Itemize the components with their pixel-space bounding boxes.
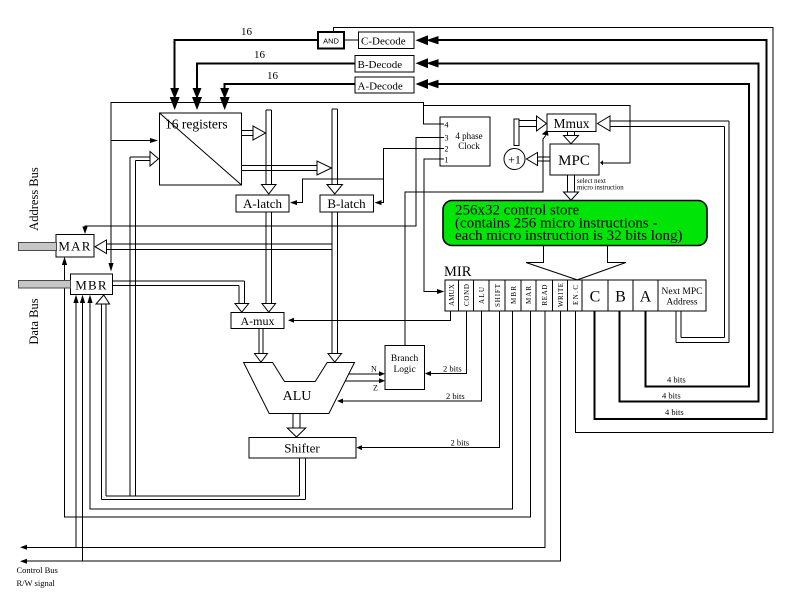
bus: MPC output to control store bbox=[567, 175, 569, 192]
wire: phase-3 clock to MAR load bbox=[85, 138, 440, 231]
svg-text:MAR: MAR bbox=[525, 286, 533, 304]
wire: B loop (4 bits) from MIR B field to B-Decode bbox=[430, 63, 759, 401]
svg-text:Clock: Clock bbox=[458, 141, 480, 151]
svg-text:each micro instruction is 32 b: each micro instruction is 32 bits long) bbox=[455, 228, 682, 244]
arrow: into MPC right edge bbox=[600, 160, 603, 165]
wire: WRITE branch up into MBR bbox=[82, 299, 84, 561]
bus: MPC to +1 adder bbox=[538, 156, 550, 158]
svg-text:Address Bus: Address Bus bbox=[27, 167, 41, 231]
arrow: down into 16 registers (A field) bbox=[220, 88, 230, 110]
svg-text:Next MPC: Next MPC bbox=[662, 287, 703, 297]
arrow: up into MBR bottom bbox=[87, 295, 92, 303]
bus: riser into MBR bottom bbox=[101, 304, 103, 500]
component: branch logic box bbox=[385, 345, 424, 389]
arrow: down into 16 registers (B field) bbox=[192, 88, 202, 110]
svg-text:Address: Address bbox=[666, 298, 697, 308]
svg-text:AND: AND bbox=[323, 37, 339, 46]
svg-text:A-Decode: A-Decode bbox=[358, 81, 403, 93]
component: B-latch box bbox=[320, 195, 374, 212]
bus: address bus (gray) bbox=[19, 243, 57, 251]
svg-text:2: 2 bbox=[445, 145, 449, 154]
component: A-Decode box bbox=[355, 77, 414, 93]
wire: phase-2 branch to A-latch bbox=[293, 179, 383, 203]
component: shifter box bbox=[249, 437, 356, 458]
arrow: N into branch logic bbox=[379, 371, 385, 376]
arrow: up into MBR bottom (write) bbox=[80, 295, 85, 303]
wire: READ branch up into MBR bbox=[75, 299, 77, 547]
wire: ALU N flag to branch logic bbox=[349, 373, 381, 375]
wire: phase-4 clock distribution (top edge, left edge to MBR) bbox=[111, 103, 440, 264]
arrow: write control bus left bbox=[20, 559, 27, 564]
wire: MIR READ control to control bus bbox=[23, 311, 545, 547]
svg-text:B-latch: B-latch bbox=[327, 196, 366, 211]
arrow: diagonal into Mmux corner bbox=[542, 130, 549, 136]
svg-text:C: C bbox=[590, 289, 601, 306]
svg-text:COND: COND bbox=[463, 284, 471, 306]
component: A-mux box bbox=[231, 313, 284, 329]
arrow: into ALU right edge bbox=[337, 399, 343, 404]
bus: Mmux output to MPC bbox=[567, 132, 569, 136]
arrow: into A-mux right edge bbox=[288, 318, 294, 323]
wire: phase-2 clock to B-latch bbox=[378, 149, 441, 203]
svg-text:Logic: Logic bbox=[394, 365, 416, 375]
svg-text:Branch: Branch bbox=[391, 354, 419, 364]
bus: pulse to Mmux bbox=[519, 120, 537, 122]
arrow: into C-Decode bbox=[416, 35, 439, 45]
wire: ALU Z flag to branch logic bbox=[346, 380, 381, 382]
svg-text:Shifter: Shifter bbox=[284, 441, 320, 456]
bus: tap from B bus into MAR bbox=[107, 243, 333, 245]
wire: phase-4 branch into 16 registers bbox=[111, 140, 150, 142]
bus: A-mux output to ALU bbox=[258, 329, 260, 354]
wire: MIR MBR field control bbox=[90, 299, 513, 509]
component: A-latch box bbox=[236, 195, 289, 212]
svg-text:C-Decode: C-Decode bbox=[361, 36, 406, 48]
wire: phase-4 branch to MPC clock bbox=[424, 106, 631, 163]
component: Mmux box bbox=[547, 114, 596, 132]
component: 256x32 control store (green) bbox=[443, 201, 707, 246]
svg-text:B-Decode: B-Decode bbox=[358, 59, 403, 71]
svg-text:Control Bus: Control Bus bbox=[17, 565, 58, 575]
bus: B-latch output to ALU bbox=[331, 212, 333, 354]
svg-text:micro instruction: micro instruction bbox=[577, 185, 624, 192]
arrow: into A-latch right edge bbox=[290, 200, 297, 205]
svg-text:READ: READ bbox=[541, 285, 549, 306]
component: 16 registers box bbox=[160, 113, 242, 185]
arrow: into MIR left edge bbox=[437, 289, 444, 294]
arrow: into B-Decode bbox=[416, 58, 439, 68]
wire: AND gate output to C-Decode line bbox=[344, 39, 359, 41]
component: AND gate box bbox=[318, 32, 344, 49]
svg-text:A: A bbox=[640, 289, 652, 306]
bus: next MPC address to Mmux bbox=[675, 311, 677, 343]
bus: MBR output to A-mux bbox=[113, 280, 245, 282]
svg-text:MBR: MBR bbox=[510, 286, 518, 304]
component: B-Decode box bbox=[355, 56, 414, 73]
arrow: into A-Decode bbox=[416, 79, 439, 89]
arrow: up into MAR bottom bbox=[62, 257, 67, 265]
arrow: hook down into MAR top bbox=[82, 227, 87, 235]
svg-text:4 phase: 4 phase bbox=[455, 131, 482, 141]
wire: MIR SHIFT field control (2 bits) bbox=[360, 311, 500, 448]
arrow: into branch logic right edge bbox=[425, 371, 431, 376]
bus: data bus (gray) bbox=[19, 280, 71, 288]
wire: ENC loop from MIR EN.C field to AND gate bbox=[334, 28, 773, 433]
component: C-Decode box bbox=[359, 32, 415, 49]
svg-text:Mmux: Mmux bbox=[553, 116, 589, 131]
svg-text:Z: Z bbox=[373, 384, 378, 393]
bus: C bus bottom channel from shifter bbox=[106, 495, 300, 497]
wire: A loop (4 bits) from MIR A field to A-Decode bbox=[430, 84, 749, 387]
svg-text:2 bits: 2 bits bbox=[446, 391, 465, 401]
svg-text:3: 3 bbox=[445, 134, 449, 143]
svg-text:4 bits: 4 bits bbox=[662, 391, 681, 401]
bus: ALU output to shifter bbox=[292, 414, 294, 429]
svg-text:ALU: ALU bbox=[283, 389, 312, 404]
bus: registers to A-latch bbox=[265, 110, 267, 185]
svg-text:16: 16 bbox=[241, 26, 253, 38]
bus: registers B output arrow bbox=[242, 165, 318, 167]
svg-text:R/W signal: R/W signal bbox=[17, 578, 56, 588]
component: 4 phase clock box bbox=[440, 117, 490, 166]
svg-text:+1: +1 bbox=[508, 153, 521, 167]
svg-text:WRITE: WRITE bbox=[557, 283, 565, 307]
component: MAR box bbox=[56, 235, 94, 258]
svg-text:4 bits: 4 bits bbox=[667, 375, 686, 385]
svg-text:16: 16 bbox=[254, 49, 266, 61]
arrow: phase-4 down into MBR top bbox=[108, 263, 113, 272]
component: MIR register row bbox=[445, 280, 706, 311]
svg-text:A-latch: A-latch bbox=[243, 196, 282, 211]
bus: control store funnel to MIR bbox=[526, 246, 577, 280]
wire: 16-bit line to B-Decode bbox=[197, 63, 355, 96]
component: MPC box bbox=[550, 144, 599, 175]
wire: branch logic output to Mmux select bbox=[405, 135, 546, 345]
bus: C bus vertical riser bbox=[129, 157, 131, 496]
wire: MIR AMUX field control bbox=[292, 311, 451, 320]
arrow: up into MBR bottom (read) bbox=[73, 295, 78, 303]
wire: MIR WRITE control to control bus bbox=[23, 311, 561, 561]
svg-text:A-mux: A-mux bbox=[241, 314, 275, 328]
arrow: read control bus left bbox=[20, 545, 27, 550]
svg-text:MIR: MIR bbox=[444, 264, 472, 280]
arrow: into registers left edge bbox=[150, 138, 158, 143]
svg-text:MPC: MPC bbox=[558, 153, 590, 169]
svg-text:16 registers: 16 registers bbox=[165, 117, 228, 132]
svg-text:MAR: MAR bbox=[58, 239, 91, 254]
arrow: into Shifter right edge bbox=[357, 445, 363, 450]
wire: MIR ALU field control (2 bits) bbox=[341, 311, 482, 401]
component: MBR box bbox=[71, 274, 113, 295]
svg-text:ALU: ALU bbox=[478, 287, 486, 304]
svg-text:4: 4 bbox=[445, 121, 449, 130]
svg-text:4 bits: 4 bits bbox=[665, 407, 684, 417]
svg-text:1: 1 bbox=[445, 156, 449, 165]
wire: C loop (4 bits) from MIR C field to C-Decode bbox=[430, 40, 766, 419]
svg-text:MBR: MBR bbox=[75, 278, 108, 293]
component: clock pulse bar bbox=[514, 119, 519, 146]
arrow: into B-latch right edge bbox=[375, 200, 382, 205]
component: +1 adder circle bbox=[504, 149, 525, 170]
svg-text:EN.C: EN.C bbox=[572, 285, 580, 305]
bus: registers to B-latch bbox=[331, 109, 333, 184]
wire: 16-bit line to C-Decode via AND bbox=[175, 40, 318, 96]
bus: A-latch output to A-mux bbox=[265, 212, 267, 304]
svg-text:2 bits: 2 bits bbox=[451, 438, 470, 448]
bus: shifter output bbox=[299, 458, 301, 496]
svg-text:SHIFT: SHIFT bbox=[494, 283, 502, 307]
bus: C bus return into registers bbox=[136, 160, 151, 162]
svg-text:B: B bbox=[615, 289, 626, 306]
arrow: Z into branch logic bbox=[379, 378, 385, 383]
wire: MIR MAR field control bbox=[65, 261, 531, 517]
svg-text:Data Bus: Data Bus bbox=[27, 298, 41, 344]
svg-text:16: 16 bbox=[267, 70, 279, 82]
bus: registers A output arrow bbox=[242, 130, 254, 132]
wire: 16-bit line to A-Decode bbox=[225, 84, 355, 96]
wire: MIR COND field to branch logic (2 bits) bbox=[429, 311, 467, 374]
svg-text:N: N bbox=[371, 365, 377, 374]
arrow: down into 16 registers (C field) bbox=[170, 88, 180, 110]
svg-text:AMUX: AMUX bbox=[448, 284, 456, 306]
wire: phase-1 clock to MIR load bbox=[424, 159, 440, 291]
component: ALU trapezoid bbox=[244, 363, 355, 414]
svg-text:2 bits: 2 bits bbox=[443, 364, 462, 374]
